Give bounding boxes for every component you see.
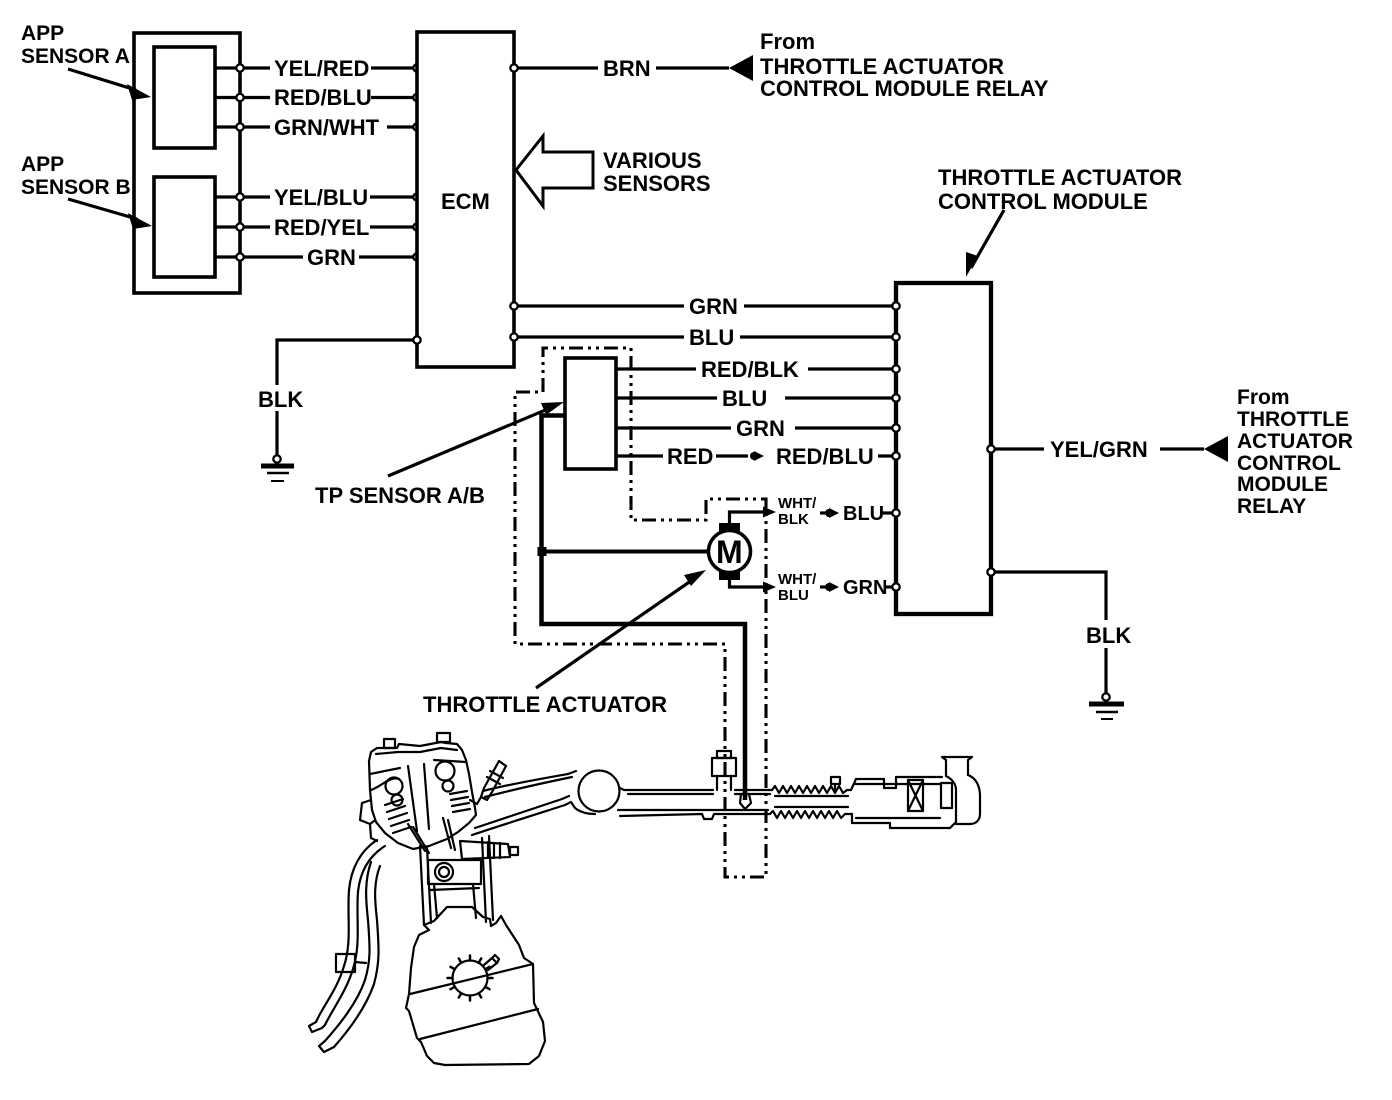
inline connector + wire BLU (motor top) [820, 503, 900, 525]
svg-text:CONTROL MODULE: CONTROL MODULE [938, 189, 1148, 214]
left hose inner [319, 862, 380, 1052]
label THROTTLE ACTUATOR CONTROL MODULE [938, 165, 1182, 214]
svg-text:YEL/RED: YEL/RED [274, 56, 369, 81]
VARIOUS SENSORS block arrow [516, 136, 593, 206]
head internal ribs [370, 748, 466, 831]
svg-text:From: From [760, 29, 815, 54]
svg-text:RELAY: RELAY [1237, 495, 1306, 518]
secondary block [941, 783, 952, 808]
wire RED/BLK [616, 354, 900, 384]
label From THROTTLE ACTUATOR CONTROL MODULE RELAY (top) [760, 29, 1049, 101]
head top caps [384, 733, 450, 748]
svg-text:BLU: BLU [778, 587, 809, 604]
svg-text:RED: RED [667, 444, 713, 469]
harness boundary (dash-dot) around TP sensor, motor and down to throttle body [515, 348, 766, 877]
svg-text:RED/YEL: RED/YEL [274, 215, 369, 240]
APP sensor assembly outer box [134, 33, 240, 293]
wire GRN (APP B) [215, 241, 421, 271]
APP sensor B inner box [154, 177, 215, 277]
throttle valve (X box) [908, 780, 923, 811]
svg-text:WHT/: WHT/ [778, 571, 817, 588]
engine piston cylinder rails [420, 836, 493, 925]
TP sensor A/B box [565, 358, 616, 469]
wire BLU (ECM to TACM) [510, 322, 899, 352]
leader arrow to APP sensor B [68, 199, 152, 229]
valve stems [408, 818, 455, 853]
small bolt on tube [831, 777, 840, 792]
wire connector into throttle body [740, 794, 751, 809]
svg-text:SENSORS: SENSORS [603, 171, 711, 196]
valve spring right (hatch) [450, 791, 470, 812]
wire YEL/RED [215, 52, 421, 82]
svg-text:From: From [1237, 386, 1290, 409]
terminals GRN/BLU on TACM left edge (redrawn above box) [892, 302, 899, 309]
throttle actuator control module box [896, 283, 991, 614]
svg-text:GRN: GRN [736, 416, 785, 441]
svg-text:GRN: GRN [689, 294, 738, 319]
wire BRN [510, 53, 729, 83]
crankcase slant lines [410, 964, 538, 1039]
svg-text:APP: APP [21, 153, 64, 176]
svg-text:YEL/BLU: YEL/BLU [274, 185, 368, 210]
wire GRN (ECM to TACM) [510, 291, 899, 321]
svg-text:CONTROL MODULE RELAY: CONTROL MODULE RELAY [760, 76, 1049, 101]
engine cylinder head outline [369, 742, 476, 849]
arrow from throttle actuator control module relay (top) [729, 55, 753, 81]
wire BLU (TP) [616, 383, 900, 413]
svg-text:BRN: BRN [603, 56, 651, 81]
svg-text:BLU: BLU [843, 503, 884, 525]
label APP SENSOR B [21, 153, 131, 199]
svg-text:GRN: GRN [307, 245, 356, 270]
wire YEL/BLU [215, 181, 421, 211]
label From THROTTLE ACTUATOR CONTROL MODULE RELAY (right) [1237, 386, 1353, 518]
tube inner lines [618, 784, 940, 818]
injector assembly [460, 841, 518, 859]
motor bottom lead WHT/BLU [730, 571, 818, 604]
label APP SENSOR A [21, 22, 130, 68]
wire BLK (TACM ground) [987, 568, 1132, 693]
svg-text:ECM: ECM [441, 189, 490, 214]
throttle body tube bottom wall [620, 811, 956, 828]
wire RED/YEL [215, 211, 421, 241]
junction (solid square) [538, 547, 547, 556]
svg-text:VARIOUS: VARIOUS [603, 148, 702, 173]
svg-text:BLK: BLK [778, 511, 809, 528]
crankcase outline [406, 907, 545, 1065]
ground symbol (TACM BLK) [1089, 693, 1124, 719]
inline connector + wire GRN (motor bottom) [820, 577, 900, 599]
left hose outer [309, 840, 385, 1032]
wire junction to motor [542, 550, 710, 554]
valve spring left (hatch) [385, 799, 411, 833]
motor top lead WHT/BLK [730, 495, 818, 528]
svg-text:THROTTLE ACTUATOR: THROTTLE ACTUATOR [938, 165, 1182, 190]
wire BLK (ECM ground) [254, 336, 421, 455]
svg-text:GRN: GRN [843, 577, 887, 599]
leader arrow to TACM box [966, 210, 1004, 277]
svg-text:MODULE: MODULE [1237, 473, 1328, 496]
svg-text:WHT/: WHT/ [778, 495, 817, 512]
svg-text:SENSOR B: SENSOR B [21, 176, 131, 199]
hose fitting [336, 954, 366, 972]
wire GRN/WHT [215, 111, 421, 141]
leader arrow to APP sensor A [68, 69, 151, 100]
crank sprocket [448, 955, 500, 1001]
label VARIOUS SENSORS [603, 148, 711, 196]
svg-text:CONTROL: CONTROL [1237, 452, 1341, 475]
thick harness wire from TP sensor to throttle body [542, 416, 746, 801]
svg-text:BLK: BLK [1086, 623, 1131, 648]
wire GRN (TP) [616, 413, 900, 443]
head-left bracket [360, 800, 371, 824]
svg-text:M: M [716, 534, 743, 570]
svg-text:APP: APP [21, 22, 64, 45]
leader arrow to motor [536, 570, 706, 688]
APP sensor A inner box [154, 47, 215, 148]
throttle actuator motor M [709, 523, 751, 580]
spark plug [470, 761, 506, 804]
ground symbol (ECM BLK) [261, 455, 294, 481]
head lower-left bracket [370, 821, 377, 841]
ECM box [417, 32, 514, 367]
runner bulb [579, 771, 620, 812]
svg-text:ACTUATOR: ACTUATOR [1237, 430, 1353, 453]
svg-text:GRN/WHT: GRN/WHT [274, 115, 380, 140]
svg-text:THROTTLE ACTUATOR: THROTTLE ACTUATOR [423, 692, 667, 717]
svg-text:BLU: BLU [722, 386, 767, 411]
svg-text:RED/BLU: RED/BLU [776, 444, 874, 469]
svg-text:BLU: BLU [689, 325, 734, 350]
svg-text:YEL/GRN: YEL/GRN [1050, 437, 1148, 462]
wire RED to RED/BLU with inline connector [616, 444, 900, 469]
MAP sensor block on tube [712, 751, 736, 790]
wire RED/BLU [215, 82, 421, 112]
svg-text:RED/BLK: RED/BLK [701, 357, 799, 382]
intake runner lower wall [472, 796, 595, 835]
svg-text:SENSOR A: SENSOR A [21, 45, 130, 68]
svg-text:RED/BLU: RED/BLU [274, 85, 372, 110]
wire YEL/GRN [987, 434, 1204, 464]
svg-text:TP SENSOR A/B: TP SENSOR A/B [315, 483, 485, 508]
svg-text:THROTTLE: THROTTLE [1237, 408, 1349, 431]
arrow from throttle actuator control module relay (right) [1204, 436, 1228, 462]
air inlet elbow [942, 757, 980, 824]
piston [428, 860, 481, 918]
leader arrow to TP sensor box [388, 402, 564, 476]
svg-text:BLK: BLK [258, 387, 303, 412]
intake runner upper wall [483, 771, 576, 797]
cam circles [386, 762, 455, 806]
throttle body tube top wall [620, 777, 942, 793]
